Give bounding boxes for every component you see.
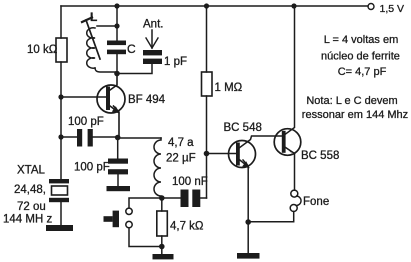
ground below R3 [153,254,174,259]
svg-text:1 MΩ: 1 MΩ [215,82,243,94]
svg-text:C= 4,7 pF: C= 4,7 pF [338,66,387,78]
resistor R1 10 kOhm [56,38,67,62]
capacitor C4 100 pF (to ground) [117,138,119,159]
svg-text:72 ou: 72 ou [17,201,46,213]
inductor L (variable) [87,28,95,68]
svg-text:Nota: L e C devem: Nota: L e C devem [306,95,397,107]
terminal +1,5V open circle [368,4,374,10]
svg-text:BC 548: BC 548 [224,122,262,134]
resistor R2 1 MOhm [202,72,213,96]
capacitor C3 100 pF (series) [61,136,77,138]
svg-text:ressonar em 144 Mhz: ressonar em 144 Mhz [302,109,408,121]
fone jack upper contact [291,190,298,197]
node base BC548 [204,151,210,157]
wire base node to 1M [206,96,208,154]
wire top supply rail [61,5,368,7]
svg-text:XTAL: XTAL [17,165,46,177]
node BC548 emitter / fone [245,219,251,225]
capacitor C plates [116,26,118,40]
ground below XTAL [46,225,73,231]
svg-text:100 pF: 100 pF [68,116,104,128]
transistor Q3 BC558 [274,129,301,156]
svg-text:4,7 kΩ: 4,7 kΩ [170,221,204,233]
antenna Ant. arrow [151,30,153,48]
capacitor C2 1 pF [143,50,162,55]
node base BF494 [58,94,63,99]
svg-text:Fone: Fone [303,196,329,208]
wire L top horizontal [97,25,117,27]
ground below BC548 [237,253,260,259]
node top rail at 1M branch [204,3,209,8]
switch push button [113,211,119,228]
svg-text:100 pF: 100 pF [74,162,110,174]
svg-text:L: L [90,10,97,24]
node LC bottom junction [114,71,120,77]
wire emitter BC558 to rail [286,6,295,134]
svg-text:4,7 a: 4,7 a [168,137,194,149]
fone jack lower contact [290,205,297,212]
crystal XTAL [49,179,69,183]
node top rail at BC558 emitter [291,3,296,8]
svg-text:10 kΩ: 10 kΩ [27,44,58,56]
svg-text:22 µF: 22 µF [166,152,196,164]
wire emitter node to coil [118,137,161,139]
svg-text:L = 4 voltas em: L = 4 voltas em [324,34,399,46]
node below R3 [159,244,165,250]
wire emitter BC548 with arrow [240,160,248,167]
ground below C4 [107,186,131,191]
wire emitter BF494 with arrow [110,106,118,112]
node emitter junction [115,135,121,141]
node LC top [114,23,119,28]
svg-text:Ant.: Ant. [143,19,163,31]
wire LC top drop [116,6,118,26]
resistor R3 4,7 kOhm [161,198,163,211]
svg-text:1 pF: 1 pF [164,56,187,68]
wire 1M to rail [206,6,208,72]
switch contact upper [126,208,132,214]
svg-text:100 nF: 100 nF [172,176,208,188]
capacitor C5 100 nF [162,197,181,199]
svg-text:24,48,: 24,48, [14,184,46,196]
wire collector BC548 [240,136,282,148]
svg-text:núcleo de ferrite: núcleo de ferrite [321,51,400,63]
wire 100nF to base node [206,154,208,199]
wire node to switch [129,198,162,208]
wire base BF494 [61,96,106,98]
transistor Q2 BC548 [207,153,237,155]
wire junction to 1pF [117,64,152,74]
wire collector BC558 with arrow [286,148,295,154]
fone jack arc [296,196,301,205]
svg-text:C: C [127,42,136,56]
svg-text:1,5 V: 1,5 V [380,3,405,15]
wire left rail below R1 [60,62,62,179]
node left at 100pF [58,134,63,139]
wire fone to emitter node [248,212,294,222]
svg-text:144 MH z: 144 MH z [3,214,52,226]
switch contact lower [126,221,132,227]
inductor L2 4,7 a 22 uF [154,138,162,198]
svg-text:BF 494: BF 494 [128,94,166,106]
node top rail at LC branch [114,3,119,8]
wire switch lower to ground rail [129,228,162,247]
wire L bottom horizontal [95,68,117,72]
node coil bottom [159,195,165,201]
arrow slug through L [86,20,100,59]
transistor Q1 BF494 [97,85,125,113]
wire left rail top [60,6,62,38]
svg-text:BC 558: BC 558 [301,150,339,162]
wire collector BF494 [110,74,117,91]
